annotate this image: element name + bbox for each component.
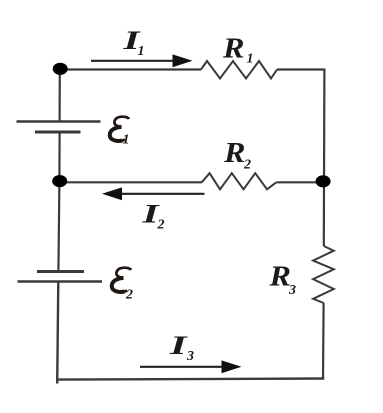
svg-text:3: 3 xyxy=(288,283,296,298)
label I2 xyxy=(141,200,165,233)
battery E1 short plate xyxy=(35,131,81,134)
node C (middle right junction) xyxy=(316,175,331,187)
wire middle: node B to R2 xyxy=(59,181,202,183)
wire right side upper xyxy=(323,69,326,247)
wire battery E2 to bottom xyxy=(57,282,58,384)
wire left: node A to battery E1 xyxy=(58,68,60,122)
resistor R3 xyxy=(313,246,334,303)
battery E1 long plate xyxy=(17,120,101,122)
battery E2 long plate xyxy=(18,280,103,282)
wire battery E1 to node B xyxy=(58,132,60,182)
arrow I2 (current direction, left) xyxy=(102,187,205,200)
wire top left to R1 xyxy=(59,68,201,70)
svg-text:R: R xyxy=(268,262,291,293)
resistor R1 xyxy=(201,61,277,79)
svg-text:2: 2 xyxy=(125,288,133,303)
wire bottom xyxy=(56,379,324,380)
label I1 xyxy=(122,26,145,59)
svg-text:I: I xyxy=(168,331,188,360)
wire R2 to node C xyxy=(277,181,324,183)
node B (middle left junction) xyxy=(52,175,67,187)
svg-text:R: R xyxy=(222,34,245,65)
wire node B to battery E2 xyxy=(58,182,59,272)
resistor R2 xyxy=(202,173,277,189)
svg-text:2: 2 xyxy=(157,218,165,233)
arrow I3 (current direction, right) xyxy=(140,360,242,373)
svg-text:R: R xyxy=(223,138,246,169)
node A (top left junction) xyxy=(53,63,68,75)
svg-text:3: 3 xyxy=(186,349,194,364)
label R1 xyxy=(222,34,254,67)
battery label E2 (script E) xyxy=(111,268,133,303)
arrow I1 (current direction, right) xyxy=(91,54,193,67)
label R3 xyxy=(268,262,296,299)
svg-text:2: 2 xyxy=(243,158,251,173)
label I3 xyxy=(168,331,194,364)
svg-text:1: 1 xyxy=(123,133,130,148)
label R2 xyxy=(223,138,251,173)
svg-text:1: 1 xyxy=(247,52,254,67)
wire R1 to top-right corner xyxy=(277,68,325,70)
wire right side lower xyxy=(322,303,325,380)
battery label E1 (script E) xyxy=(109,117,129,148)
battery E2 short plate xyxy=(37,270,84,273)
svg-text:1: 1 xyxy=(138,44,145,59)
